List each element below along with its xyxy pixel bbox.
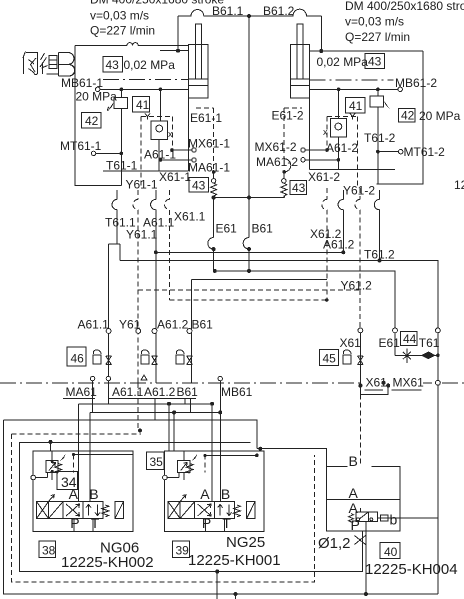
svg-text:42: 42	[401, 109, 415, 123]
svg-text:B: B	[349, 453, 358, 469]
svg-text:MB61: MB61	[221, 385, 253, 399]
svg-text:P: P	[70, 515, 79, 531]
svg-text:T61-2: T61-2	[364, 131, 396, 145]
svg-text:Q=227 l/min: Q=227 l/min	[90, 24, 155, 38]
svg-text:X61-1: X61-1	[159, 170, 191, 184]
svg-text:43: 43	[368, 55, 382, 69]
svg-text:A61.2: A61.2	[157, 318, 189, 332]
svg-text:T61: T61	[419, 336, 440, 350]
svg-text:12225-KH002: 12225-KH002	[61, 554, 154, 571]
svg-text:40: 40	[384, 545, 398, 559]
svg-text:E61: E61	[379, 336, 401, 350]
svg-text:43: 43	[192, 179, 206, 193]
svg-text:43: 43	[292, 181, 306, 195]
svg-text:E61: E61	[216, 222, 238, 236]
svg-text:DM 400/250x1680 stroke: DM 400/250x1680 stroke	[345, 0, 464, 13]
svg-text:43: 43	[106, 58, 120, 72]
svg-text:v=0,03 m/s: v=0,03 m/s	[90, 9, 149, 23]
svg-text:A: A	[349, 500, 359, 516]
svg-text:T: T	[91, 515, 100, 531]
svg-text:E61-2: E61-2	[272, 109, 304, 123]
svg-text:b: b	[390, 512, 398, 528]
svg-text:0,02 MPa: 0,02 MPa	[124, 58, 176, 72]
svg-text:A: A	[349, 485, 359, 501]
svg-text:X61-2: X61-2	[308, 170, 340, 184]
svg-text:P: P	[351, 517, 360, 533]
svg-text:Y61-2: Y61-2	[343, 184, 375, 198]
svg-text:12225-KH004: 12225-KH004	[365, 561, 458, 578]
svg-text:44: 44	[403, 332, 417, 346]
svg-text:B61: B61	[177, 385, 199, 399]
svg-text:A61.2: A61.2	[144, 385, 176, 399]
svg-text:B61: B61	[192, 318, 214, 332]
svg-text:20 MPa: 20 MPa	[419, 109, 461, 123]
svg-text:A61.2: A61.2	[323, 238, 355, 252]
svg-text:X61: X61	[340, 336, 362, 350]
svg-text:42: 42	[85, 114, 99, 128]
svg-text:41: 41	[136, 98, 150, 112]
svg-text:B: B	[89, 486, 98, 502]
svg-text:12225-KH001: 12225-KH001	[188, 552, 281, 569]
svg-text:0,02 MPa: 0,02 MPa	[317, 55, 369, 69]
svg-text:A61.1: A61.1	[78, 318, 110, 332]
svg-text:A: A	[69, 486, 79, 502]
svg-text:X61.1: X61.1	[174, 210, 206, 224]
svg-text:B61: B61	[252, 222, 274, 236]
svg-text:MA61-2: MA61-2	[256, 155, 298, 169]
svg-text:Y61-1: Y61-1	[126, 178, 158, 192]
svg-text:Q=227 l/min: Q=227 l/min	[345, 30, 410, 44]
svg-text:A: A	[200, 486, 210, 502]
svg-text:MX61: MX61	[393, 376, 425, 390]
svg-text:46: 46	[71, 352, 85, 366]
svg-text:E61-1: E61-1	[190, 111, 222, 125]
svg-text:A61.1: A61.1	[112, 385, 144, 399]
svg-text:T: T	[222, 515, 231, 531]
svg-text:v=0,03 m/s: v=0,03 m/s	[345, 14, 404, 28]
svg-text:NG25: NG25	[226, 534, 265, 551]
svg-text:T61-1: T61-1	[106, 159, 138, 173]
svg-text:B: B	[221, 486, 230, 502]
svg-text:MT61-2: MT61-2	[404, 145, 446, 159]
svg-text:41: 41	[349, 99, 363, 113]
svg-text:38: 38	[42, 544, 56, 558]
svg-text:35: 35	[150, 455, 164, 469]
svg-text:45: 45	[323, 352, 337, 366]
svg-text:DM 400/250x1680 stroke: DM 400/250x1680 stroke	[90, 0, 224, 7]
svg-text:Y61: Y61	[119, 318, 141, 332]
svg-text:MT61-1: MT61-1	[60, 139, 102, 153]
svg-text:Ø1,2: Ø1,2	[318, 535, 351, 552]
svg-text:P: P	[202, 515, 211, 531]
svg-text:12: 12	[454, 178, 464, 192]
svg-text:MX61-2: MX61-2	[255, 140, 297, 154]
svg-text:Y61.1: Y61.1	[126, 228, 158, 242]
svg-text:A61-2: A61-2	[326, 141, 358, 155]
